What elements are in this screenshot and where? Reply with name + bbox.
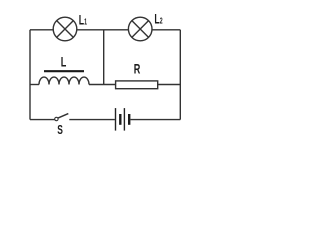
svg-text:L1: L1: [79, 14, 87, 28]
wire bottom-left to switch: [30, 119, 55, 121]
wire right side: [179, 30, 181, 120]
switch S pivot: [55, 117, 58, 120]
lamp L2: [128, 17, 152, 41]
wire switch to battery: [69, 119, 115, 121]
lamp L1: [53, 17, 77, 41]
inductor L coil: [39, 77, 89, 84]
wire left side: [29, 30, 31, 120]
wire middle vertical link: [103, 30, 105, 85]
wire top-left segment: [30, 29, 53, 31]
svg-text:R: R: [134, 60, 141, 77]
svg-text:S: S: [57, 124, 63, 138]
battery plate 2 short thick: [119, 114, 121, 125]
resistor R box: [116, 81, 158, 89]
wire coil to resistor: [89, 84, 116, 86]
battery plate 1 long: [115, 108, 117, 131]
inductor iron core bar: [44, 70, 84, 72]
wire between L1 and L2: [77, 29, 128, 31]
wire resistor to right: [158, 84, 181, 86]
svg-text:L2: L2: [154, 13, 162, 27]
battery plate 3 long: [123, 108, 125, 131]
wire battery to bottom-right: [131, 119, 181, 121]
switch S lever: [58, 114, 68, 119]
battery plate 4 short thick: [128, 114, 130, 125]
svg-text:L: L: [61, 53, 67, 70]
wire top-right segment: [152, 29, 180, 31]
wire middle branch left stub: [30, 84, 39, 86]
